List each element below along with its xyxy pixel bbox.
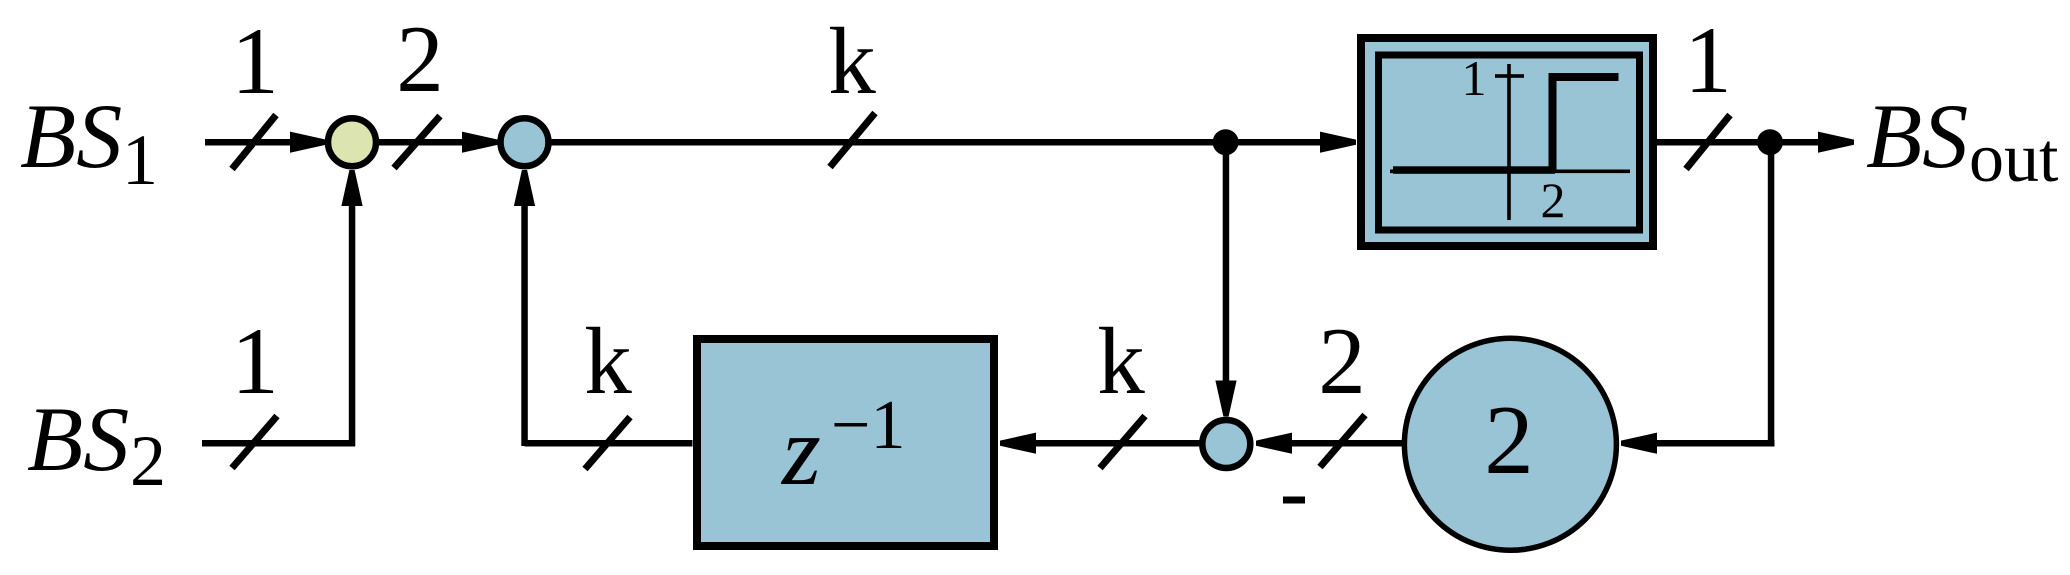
wire feedback to gain block G1 [1621,433,1775,454]
wire quantizer U1 to output node [1657,139,1770,146]
wire adder A2 to quantizer U1 [551,132,1356,153]
wire gain G1 to subtractor A3 [1256,433,1402,454]
svg-text:z: z [780,395,821,506]
wire BS2 to adder A1 [202,170,363,447]
quantizer U1 inner box [1379,55,1640,230]
svg-text:BS: BS [27,388,129,490]
svg-text:2: 2 [1541,172,1566,228]
svg-text:1: 1 [231,308,279,414]
bus-width slash (k) on subtractor wire [1100,416,1145,468]
svg-text:1: 1 [1684,7,1732,113]
bus-width slash (k) on main wire [830,113,875,167]
bus-width slash (2) after adder A1 [394,116,440,168]
svg-text:out: out [1969,120,2059,197]
svg-text:−1: −1 [831,387,905,464]
svg-text:1: 1 [1462,50,1487,106]
subtractor A3 (blue node) [1202,420,1250,468]
adder A2 (blue summing node) [501,118,549,166]
node BSout output label [1866,85,2059,197]
quantizer step riser [1549,73,1557,171]
svg-text:k: k [1097,308,1145,414]
svg-text:2: 2 [1318,308,1366,414]
svg-text:BS: BS [1866,85,1968,187]
wire BS1 to adder A1 [205,132,326,153]
svg-text:BS: BS [20,85,122,187]
quantizer horizontal axis [1390,170,1630,174]
node BS1 input label [20,85,158,200]
svg-text:1: 1 [122,120,158,200]
svg-text:k: k [584,308,632,414]
bus-width slash (k) on delay output wire [585,417,630,469]
adder A1 (yellow summing node) [328,118,376,166]
bus-width slash (2) on gain wire [1320,415,1365,467]
delay block Z1 label z^-1 [780,387,905,506]
svg-text:2: 2 [396,6,444,112]
bus-width slash (1) on BS1 wire [232,115,276,169]
svg-text:2: 2 [1484,386,1534,495]
svg-text:k: k [828,8,876,114]
junction dot node N2 [1757,129,1783,155]
quantizer U1 outer box [1361,38,1653,246]
bus-width slash (1) on BS2 wire [232,416,277,468]
wire node N1 down to subtractor A3 [1215,142,1236,417]
node BS2 input label [27,388,166,501]
wire delay Z1 to adder A2 [514,170,693,447]
junction dot node N1 [1213,129,1239,155]
quantizer axis plus tick [1495,74,1524,78]
wire subtractor A3 to delay block Z1 [1000,433,1200,454]
wire arrow to BSout label [1770,132,1854,153]
svg-text:2: 2 [130,421,166,501]
quantizer step low segment [1393,166,1555,174]
minus sign at subtractor A3 [1283,497,1305,504]
bus-width slash (1) on output wire [1686,115,1730,169]
wire feedback from node N2 down [1768,142,1775,446]
quantizer step high segment [1549,73,1619,81]
delay block Z1 (z^-1) [697,339,994,546]
quantizer vertical axis [1507,64,1511,220]
wire adder A1 to adder A2 [379,132,498,153]
svg-text:1: 1 [231,8,279,114]
gain block G1 (multiply by 2 circle) [1404,338,1616,550]
